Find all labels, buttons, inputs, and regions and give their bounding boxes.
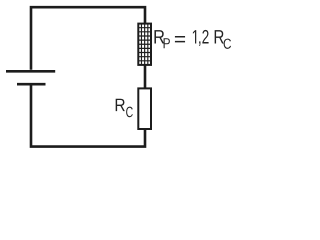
battery long plate (+) [6, 70, 55, 73]
resistor R_P (grid-hatched rectangle) [138, 24, 151, 65]
battery short plate (-) [17, 83, 46, 86]
wire top-left loop (left wire upper + top wire + right wire to R_P) [31, 7, 145, 70]
wire bottom-left loop (left wire lower + bottom wire + right wire from R_C) [31, 85, 145, 146]
label R_C [116, 99, 133, 118]
label R_P = 1,2 R_C [154, 30, 231, 49]
resistor R_C (plain rectangle) [138, 88, 151, 129]
wire between R_P and R_C [144, 65, 147, 89]
